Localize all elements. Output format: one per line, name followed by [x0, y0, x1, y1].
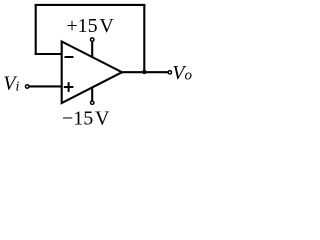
wire: feedback loop right vertical	[143, 5, 145, 72]
wire: positive supply pin	[91, 42, 93, 59]
op-amp U1	[62, 42, 122, 104]
terminal: +15V supply	[91, 38, 94, 41]
svg-text:−15 V: −15 V	[62, 107, 110, 129]
wire: output	[120, 71, 168, 73]
node: output junction	[142, 70, 146, 74]
wire: inverting input from feedback loop	[35, 53, 63, 55]
terminal: input Vi	[26, 85, 29, 88]
wire: feedback loop left vertical	[35, 5, 37, 55]
terminal: -15V supply	[91, 101, 94, 104]
terminal: output Vo	[168, 71, 171, 74]
wire: negative supply pin	[91, 87, 93, 101]
wire: non-inverting input	[29, 85, 63, 87]
svg-text:+15 V: +15 V	[66, 15, 114, 37]
wire: feedback loop top horizontal	[35, 4, 146, 6]
